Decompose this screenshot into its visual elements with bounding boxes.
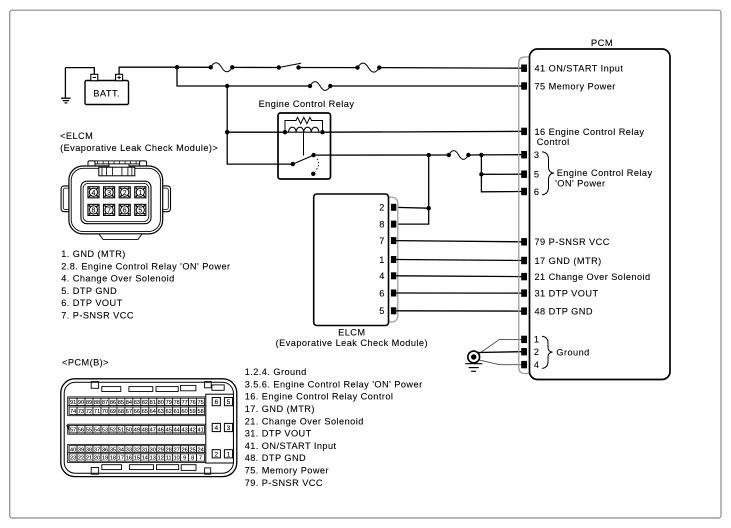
svg-text:1. GND (MTR): 1. GND (MTR): [61, 249, 126, 259]
svg-text:21. Change Over Solenoid: 21. Change Over Solenoid: [245, 416, 364, 426]
svg-text:5: 5: [534, 170, 540, 180]
svg-text:PCM: PCM: [591, 37, 613, 48]
fuse F1 (top rail): [209, 63, 235, 72]
svg-text:12: 12: [158, 456, 164, 462]
ELCM face pin 5: [135, 204, 146, 215]
svg-text:9: 9: [183, 456, 186, 462]
svg-text:70: 70: [102, 409, 108, 415]
wire: node D down to ELCM pins 2/8: [428, 155, 430, 224]
svg-text:78: 78: [174, 400, 180, 406]
svg-text:8: 8: [92, 207, 96, 214]
wire: switch to fuse F2: [299, 67, 358, 69]
wire: fuse F4 to node E: [468, 154, 481, 156]
PCM pin 75: [521, 82, 527, 89]
svg-text:6: 6: [123, 207, 127, 214]
svg-text:7: 7: [199, 456, 202, 462]
svg-text:45: 45: [166, 427, 172, 433]
svg-text:17. GND (MTR): 17. GND (MTR): [245, 404, 315, 414]
svg-text:BATT.: BATT.: [93, 88, 120, 98]
svg-text:59: 59: [190, 409, 196, 415]
PCM(B) pin grid row 2 (pins 74-58): [68, 406, 206, 416]
chassis ground symbol: [465, 364, 482, 372]
svg-text:47: 47: [150, 427, 156, 433]
svg-text:83: 83: [134, 400, 140, 406]
wire: ELCM pin 1 to PCM pin 17: [396, 260, 521, 261]
wire: node C to relay coil: [227, 131, 285, 133]
svg-text:1: 1: [138, 190, 142, 197]
svg-text:63: 63: [158, 409, 164, 415]
PCM(B) connector face drawing: [61, 379, 237, 477]
svg-text:89: 89: [86, 400, 92, 406]
svg-text:17: 17: [118, 456, 124, 462]
svg-text:2: 2: [214, 451, 218, 458]
PCM pin 17: [521, 257, 527, 264]
brace pins 3/5/6: [542, 152, 554, 195]
svg-text:80: 80: [158, 400, 164, 406]
wire: ELCM pin 8 to node G vertical: [396, 223, 429, 225]
svg-text:10: 10: [174, 456, 180, 462]
svg-text:68: 68: [118, 409, 124, 415]
svg-text:57: 57: [70, 427, 76, 433]
svg-text:52: 52: [110, 427, 116, 433]
PCM pin 21: [521, 273, 527, 280]
wire: node F to PCM pin 5: [481, 173, 521, 175]
PCM pin 4: [521, 361, 527, 368]
svg-text:46: 46: [158, 427, 164, 433]
wire: fuse F1 to ignition switch: [232, 66, 278, 68]
svg-text:16: 16: [126, 456, 132, 462]
svg-text:6. DTP VOUT: 6. DTP VOUT: [61, 298, 122, 308]
ELCM face pin 2: [119, 187, 130, 198]
svg-text:21: 21: [86, 456, 92, 462]
node F (junction pin 5): [479, 172, 483, 176]
svg-text:41. ON/START Input: 41. ON/START Input: [245, 441, 337, 451]
PCM(B) pin grid row 4 (pins 40-24): [68, 444, 206, 454]
wire: through relay coil: [285, 131, 323, 133]
wire: node E to PCM pin 3: [481, 154, 521, 156]
svg-text:42: 42: [190, 427, 196, 433]
svg-text:84: 84: [126, 400, 132, 406]
chassis ground eyelet: [468, 351, 480, 363]
ELCM face pin 7: [104, 204, 115, 215]
svg-text:50: 50: [126, 427, 132, 433]
PCM pin 16: [521, 128, 527, 135]
svg-text:60: 60: [182, 409, 188, 415]
PCM pin 31: [521, 289, 527, 296]
svg-text:'ON' Power: 'ON' Power: [555, 178, 605, 188]
svg-text:51: 51: [118, 427, 124, 433]
svg-text:3: 3: [107, 190, 111, 197]
ELCM face pin 4: [88, 187, 99, 198]
svg-text:81: 81: [150, 400, 156, 406]
svg-text:1: 1: [227, 451, 231, 458]
svg-text:2: 2: [534, 347, 540, 357]
svg-text:Engine Control Relay: Engine Control Relay: [259, 99, 355, 109]
svg-text:69: 69: [110, 409, 116, 415]
svg-text:61: 61: [174, 409, 180, 415]
svg-text:4: 4: [214, 425, 218, 432]
svg-text:6: 6: [214, 399, 218, 406]
svg-text:82: 82: [142, 400, 148, 406]
wire: relay coil out to PCM pin 16: [323, 130, 522, 133]
relay armature link: [303, 132, 305, 155]
svg-text:ELCM: ELCM: [338, 328, 365, 338]
svg-text:6: 6: [379, 288, 385, 298]
PCM(B) pin grid row 5 (pins 23-7): [68, 453, 206, 463]
ELCM connector face drawing: [61, 161, 170, 240]
svg-text:86: 86: [110, 400, 116, 406]
svg-text:7: 7: [379, 236, 385, 246]
svg-text:4: 4: [534, 360, 540, 370]
wire: fuse F2 to PCM pin 41: [379, 67, 521, 70]
svg-text:48 DTP GND: 48 DTP GND: [535, 306, 593, 316]
svg-text:2: 2: [123, 190, 127, 197]
svg-text:62: 62: [166, 409, 172, 415]
svg-text:<PCM(B)>: <PCM(B)>: [62, 357, 109, 367]
svg-text:6: 6: [534, 187, 540, 197]
svg-text:8: 8: [191, 456, 194, 462]
svg-text:64: 64: [150, 409, 156, 415]
svg-text:54: 54: [94, 427, 100, 433]
PCM pin 1: [521, 336, 527, 343]
svg-text:48: 48: [142, 427, 148, 433]
svg-text:17 GND (MTR): 17 GND (MTR): [535, 256, 602, 266]
svg-text:71: 71: [94, 409, 100, 415]
resistor (relay parallel resistor): [285, 117, 323, 132]
wire: ELCM pin 6 to PCM pin 31: [396, 292, 521, 294]
svg-text:(Evaporative Leak Check Module: (Evaporative Leak Check Module): [276, 338, 428, 348]
wire: battery + up to top rail: [119, 67, 177, 74]
svg-text:41 ON/START Input: 41 ON/START Input: [535, 64, 624, 74]
ELCM module box: [314, 194, 389, 326]
svg-text:2: 2: [379, 203, 385, 213]
svg-text:15: 15: [134, 456, 140, 462]
switch SW1 (ignition): [277, 63, 301, 70]
wire: feeder from node B down to relay: [227, 86, 293, 164]
svg-text:75. Memory Power: 75. Memory Power: [245, 466, 329, 476]
PCM(B) index mark: [66, 425, 69, 431]
svg-text:91: 91: [70, 400, 76, 406]
svg-text:67: 67: [126, 409, 132, 415]
wire: ELCM pin 7 to PCM pin 79: [396, 241, 521, 242]
wire: node A down and right (memory power rail): [177, 67, 310, 86]
svg-text:75 Memory Power: 75 Memory Power: [535, 81, 616, 91]
svg-text:58: 58: [197, 409, 203, 415]
svg-text:1: 1: [379, 255, 385, 265]
svg-text:21 Change Over Solenoid: 21 Change Over Solenoid: [535, 272, 651, 282]
wire: ELCM pin 4 to PCM pin 21: [396, 275, 521, 278]
svg-text:8: 8: [379, 219, 385, 229]
svg-text:90: 90: [78, 400, 84, 406]
node A (junction battery feed): [175, 65, 179, 69]
svg-text:5: 5: [227, 399, 231, 406]
svg-text:74: 74: [70, 409, 76, 415]
svg-text:4: 4: [92, 190, 96, 197]
node C (junction relay coil feed): [225, 130, 229, 134]
wire: fuse F3 to PCM pin 75: [330, 85, 521, 87]
svg-text:53: 53: [102, 427, 108, 433]
svg-text:2.8. Engine Control Relay 'ON': 2.8. Engine Control Relay 'ON' Power: [61, 261, 230, 271]
svg-text:48. DTP GND: 48. DTP GND: [245, 453, 306, 463]
svg-text:65: 65: [142, 409, 148, 415]
svg-text:Engine Control Relay: Engine Control Relay: [557, 168, 653, 178]
wire: ground eyelet to PCM pin 1: [478, 339, 521, 354]
svg-text:19: 19: [102, 456, 108, 462]
relay box U1: [278, 113, 331, 179]
PCM(B) pin 4: [212, 423, 220, 432]
svg-text:72: 72: [86, 409, 92, 415]
svg-text:3.5.6. Engine Control Relay 'O: 3.5.6. Engine Control Relay 'ON' Power: [245, 379, 423, 389]
wire: relay switch out to fuse F4: [314, 154, 449, 156]
wire: node E down to pins 5 and 6: [481, 155, 521, 192]
node G (junction ELCM pin 2): [427, 206, 431, 210]
svg-text:14: 14: [142, 456, 148, 462]
PCM(B) pin 5: [224, 398, 232, 407]
svg-text:16 Engine Control Relay: 16 Engine Control Relay: [535, 127, 645, 137]
brace pins 1/2/4: [542, 336, 553, 368]
PCM(B) right panel: [206, 394, 234, 463]
PCM pin list text: [245, 367, 423, 488]
fuse F2 (top rail): [355, 63, 381, 72]
svg-text:13: 13: [150, 456, 156, 462]
node B (junction to relay feeder): [225, 84, 229, 88]
PCM connector shadow outline: [519, 57, 529, 374]
ground (battery negative): [61, 68, 71, 103]
PCM pin 5: [521, 171, 527, 178]
svg-text:41: 41: [197, 427, 203, 433]
svg-text:87: 87: [102, 400, 108, 406]
ELCM face pin 1: [135, 187, 146, 198]
svg-text:18: 18: [110, 456, 116, 462]
svg-text:88: 88: [94, 400, 100, 406]
svg-text:44: 44: [174, 427, 180, 433]
svg-text:5. DTP GND: 5. DTP GND: [61, 286, 117, 296]
ELCM face pin 8: [88, 204, 99, 215]
svg-text:31. DTP VOUT: 31. DTP VOUT: [245, 429, 312, 439]
PCM(B) pin grid row 1 (pins 91-75): [68, 397, 206, 407]
svg-text:(Evaporative Leak Check Module: (Evaporative Leak Check Module)>: [60, 143, 218, 153]
svg-text:3: 3: [227, 425, 231, 432]
svg-text:85: 85: [118, 400, 124, 406]
svg-text:77: 77: [182, 400, 188, 406]
ELCM face pin 3: [104, 187, 115, 198]
PCM(B) pin 2: [212, 450, 220, 459]
svg-text:76: 76: [190, 400, 196, 406]
svg-text:<ELCM: <ELCM: [60, 131, 93, 141]
wire: ELCM pin 5 to PCM pin 48: [396, 310, 521, 312]
PCM pin 6: [521, 188, 527, 195]
svg-text:4. Change Over Solenoid: 4. Change Over Solenoid: [61, 274, 175, 284]
PCM(B) pin 1: [224, 450, 232, 459]
svg-text:20: 20: [94, 456, 100, 462]
PCM pin 2: [521, 348, 527, 355]
svg-text:1.2.4. Ground: 1.2.4. Ground: [245, 367, 307, 377]
svg-text:Ground: Ground: [556, 347, 589, 357]
svg-text:79: 79: [166, 400, 172, 406]
svg-text:73: 73: [78, 409, 84, 415]
PCM(B) pin grid row 3 (pins 57-41): [68, 424, 206, 434]
relay switch contacts: [291, 153, 319, 176]
PCM module box: [530, 49, 671, 380]
inductor L1 (relay coil): [289, 127, 319, 132]
wire: top rail node A to fuse F1: [177, 66, 211, 68]
PCM pin 41: [521, 65, 527, 72]
node D (junction to ELCM power): [427, 153, 431, 157]
fuse F4 (relay output): [447, 151, 471, 160]
svg-text:56: 56: [78, 427, 84, 433]
svg-text:5: 5: [138, 207, 142, 214]
PCM pin 48: [521, 307, 527, 314]
svg-text:7: 7: [107, 207, 111, 214]
svg-text:79. P-SNSR VCC: 79. P-SNSR VCC: [245, 478, 323, 488]
svg-text:75: 75: [197, 400, 203, 406]
PCM(B) pin 6: [212, 398, 220, 407]
ELCM pin list text: [61, 249, 230, 321]
svg-text:31 DTP VOUT: 31 DTP VOUT: [535, 288, 599, 298]
svg-text:4: 4: [379, 271, 385, 281]
PCM pin 3: [521, 151, 527, 158]
svg-text:Control: Control: [537, 137, 570, 147]
svg-text:49: 49: [134, 427, 140, 433]
svg-text:7. P-SNSR VCC: 7. P-SNSR VCC: [61, 311, 134, 321]
wire: ground eyelet to PCM pin 2: [478, 351, 522, 354]
svg-text:22: 22: [78, 456, 84, 462]
svg-text:23: 23: [70, 456, 76, 462]
svg-text:1: 1: [534, 335, 540, 345]
node E (junction pins 3/5/6): [479, 153, 483, 157]
fuse F3 (memory power): [308, 82, 333, 91]
svg-text:79 P-SNSR VCC: 79 P-SNSR VCC: [535, 237, 610, 247]
svg-text:55: 55: [86, 427, 92, 433]
svg-text:16. Engine Control Relay Contr: 16. Engine Control Relay Control: [245, 392, 394, 402]
svg-text:11: 11: [166, 456, 172, 462]
svg-text:3: 3: [534, 150, 540, 160]
PCM pin 79: [521, 238, 527, 245]
svg-text:66: 66: [134, 409, 140, 415]
ELCM face pin 6: [119, 204, 130, 215]
wire: node G to ELCM pin 2: [396, 206, 429, 209]
svg-text:43: 43: [182, 427, 188, 433]
wire: ground eyelet to PCM pin 4: [478, 360, 521, 365]
ELCM connector shadow outline: [340, 197, 398, 322]
wire: battery negative terminal to ground: [65, 68, 94, 75]
battery BATT.: [85, 74, 129, 104]
PCM(B) pin 3: [224, 423, 232, 432]
svg-text:5: 5: [379, 306, 385, 316]
